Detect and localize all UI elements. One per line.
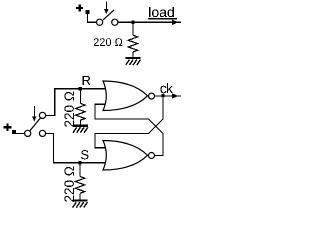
NOR gate U2 output bubble — [149, 153, 155, 159]
load arrowhead — [172, 20, 179, 26]
wire resistor R1 to ground — [132, 52, 134, 57]
supply terminal square (top) — [85, 10, 89, 14]
load label underline — [148, 18, 177, 20]
label 220 ohm (R3, rotated) — [64, 167, 74, 202]
label S — [81, 150, 88, 159]
switch SW2 upper throw contact (R) — [39, 112, 45, 118]
switch SW2 lower throw contact (S) — [39, 130, 45, 136]
switch SW1 right contact — [112, 19, 118, 25]
ground (top) — [126, 57, 141, 59]
wire from supply to switch SW1 — [88, 14, 97, 22]
wire ck to output arrow — [163, 95, 181, 97]
switch SW1 lever — [103, 10, 114, 20]
ck output arrowhead — [172, 93, 179, 99]
label R — [83, 76, 91, 85]
switch SW2 pole contact — [25, 130, 31, 136]
node junction S — [78, 161, 81, 165]
NOR gate U1 (top) body — [103, 81, 148, 111]
switch SW1 left contact — [97, 19, 103, 25]
wire junction to resistor R1 — [132, 23, 134, 35]
wire switch to load arrow — [118, 21, 181, 23]
NOR gate U1 output bubble — [149, 93, 155, 99]
battery + terminal (top supply) — [76, 4, 83, 11]
label 220 ohm (R2, rotated) — [64, 92, 74, 127]
switch SW1 actuator arrow — [105, 2, 107, 10]
wire U1 output to ck node — [155, 95, 164, 97]
label load — [149, 7, 174, 17]
node junction R — [79, 87, 82, 91]
NOR gate U2 (bottom) body — [103, 141, 148, 171]
wire U2 output to crossover — [95, 104, 163, 155]
wire supply to SPDT pole — [16, 132, 24, 134]
supply terminal square (input) — [12, 130, 16, 134]
wire resistor R3 to ground — [79, 193, 81, 200]
wire S junction to resistor R3 — [79, 163, 81, 177]
node junction ck — [161, 94, 164, 98]
switch SW2 actuator arrow — [33, 106, 35, 117]
resistor R1 zigzag — [128, 35, 137, 52]
ground (R pulldown) — [73, 125, 88, 127]
label ck — [160, 83, 173, 93]
wire R junction to resistor R2 — [79, 89, 81, 103]
wire lower throw to S line — [46, 133, 106, 162]
wire ck node to U2 upper input (crossover) — [95, 98, 163, 148]
node junction above R1 — [131, 20, 134, 24]
wire upper throw to R line — [46, 89, 106, 116]
label 220 ohm (R1) — [94, 38, 123, 46]
battery + terminal (input supply) — [4, 123, 12, 131]
ground (S pulldown) — [72, 199, 87, 201]
switch SW2 lever — [30, 118, 41, 131]
resistor R3 zigzag — [75, 177, 84, 194]
wire resistor R2 to ground — [79, 120, 81, 125]
resistor R2 zigzag — [76, 103, 85, 120]
